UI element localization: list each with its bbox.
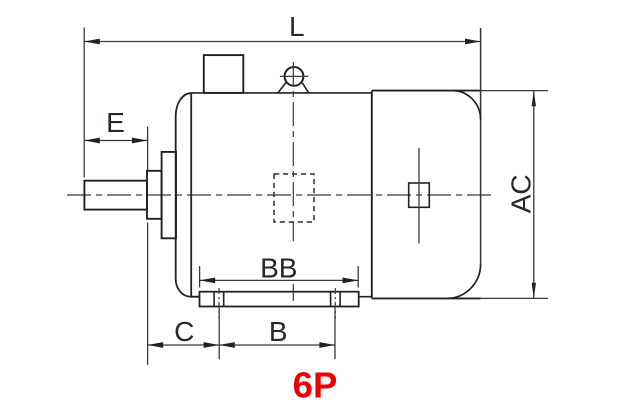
dimension E line (84, 140, 147, 142)
dimension C left arrowhead (148, 342, 164, 348)
fan cover bottom edge (372, 297, 481, 299)
fan cover bottom extension line (AC) (481, 297, 548, 299)
dimension BB left arrowhead (200, 278, 216, 284)
end shield seam line (190, 93, 192, 297)
svg-text:6P: 6P (293, 365, 338, 400)
shaft (84, 181, 147, 210)
dimension B left arrowhead (219, 342, 235, 348)
fan cover top extension line (AC) (481, 90, 548, 92)
fan cover left edge (371, 91, 373, 299)
dimension AC top arrowhead (532, 91, 536, 107)
dimension AC line (533, 91, 535, 299)
dimension BB extension line left (199, 266, 201, 288)
left foot hole centerline (218, 288, 220, 318)
eyebolt ring (285, 67, 304, 86)
fan cover bottom-right corner arc (447, 264, 481, 298)
dimension L line (84, 41, 480, 43)
dimension BB line (200, 279, 359, 281)
right foot hole edge lines (330, 292, 332, 307)
svg-text:B: B (269, 316, 288, 347)
dimension BB right arrowhead (343, 278, 359, 284)
fan cover right edge / L extension line (480, 28, 482, 264)
terminal box (204, 55, 244, 93)
dimension C right arrowhead (204, 342, 220, 348)
nameplate dashed square (274, 174, 314, 222)
eyebolt horizontal crossline (280, 75, 308, 77)
svg-text:C: C (174, 316, 194, 347)
dimension E left arrowhead (84, 138, 100, 144)
dimension L left arrowhead (84, 39, 100, 45)
eyebolt vertical centerline (292, 62, 294, 241)
right foot hole centerline (334, 288, 336, 318)
dimension E right arrowhead (132, 138, 148, 144)
dimension C/B line (148, 344, 335, 346)
svg-text:E: E (106, 107, 125, 138)
fan cover hub vertical line (418, 148, 420, 243)
main horizontal centerline (67, 194, 491, 196)
dimension L extension line left (83, 28, 85, 178)
fan cover top-right corner arc (453, 91, 481, 120)
dimension BB extension line right (357, 266, 359, 288)
fan cover hub square (409, 183, 430, 207)
svg-text:BB: BB (260, 252, 297, 283)
dimension AC bottom arrowhead (532, 283, 536, 299)
eyebolt right leg (302, 83, 308, 93)
body top edge (191, 92, 372, 94)
foot bar (200, 292, 359, 307)
dimension E extension line right (147, 127, 149, 171)
dimension B right arrowhead (319, 342, 335, 348)
shaft step 1 (147, 171, 162, 219)
dimension L right arrowhead (465, 39, 481, 45)
front end shield outline (176, 93, 200, 297)
dimension C extension line (shaft end) (147, 223, 149, 365)
dimension C/B middle extension line (218, 308, 220, 359)
dimension B right extension line (334, 308, 336, 359)
eyebolt left leg (278, 83, 286, 93)
shaft step 2 (162, 152, 176, 238)
svg-text:AC: AC (505, 174, 536, 213)
body bottom edge right segment (359, 296, 372, 298)
fan cover top edge (372, 90, 481, 92)
svg-text:L: L (289, 11, 305, 42)
left foot hole edge lines (213, 292, 215, 307)
